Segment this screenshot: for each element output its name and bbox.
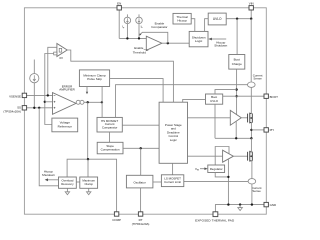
svg-text:Comparator: Comparator (151, 25, 167, 29)
pin exposed thermal pad (213, 212, 218, 217)
shutdown logic block (189, 31, 208, 46)
regulator block (208, 165, 225, 173)
overload recovery block (59, 177, 77, 188)
svg-text:Comparator: Comparator (102, 126, 118, 130)
junction dot VIN-UVLO rail (250, 18, 252, 20)
wire boot uvlo top monitor (215, 90, 237, 94)
op-amp HS gate driver (230, 110, 241, 125)
LS MOSFET current limit block (161, 175, 183, 187)
svg-text:EN: EN (117, 1, 121, 5)
junction dot SS discharge branch (38, 107, 40, 109)
pin VIN (249, 6, 253, 10)
boot UVLO block (206, 94, 223, 104)
pin GND (264, 202, 268, 206)
ground under overload recovery (66, 188, 68, 192)
svg-text:Enable: Enable (134, 46, 144, 50)
SS charge current supply stub (33, 60, 35, 74)
svg-text:PH: PH (270, 128, 274, 132)
junction dot boot rail (235, 95, 237, 97)
svg-text:Regulator: Regulator (210, 167, 223, 171)
maximum clamp block (80, 177, 98, 188)
op-amp LS gate driver (223, 150, 234, 162)
pin BOOT (264, 94, 268, 98)
junction dot Ih-bus (138, 37, 140, 39)
wire COMP node down (87, 102, 89, 159)
ground symbol on GND rail (239, 205, 241, 208)
svg-text:BOOT: BOOT (270, 95, 279, 99)
wire buffer input A from VSENSE (48, 47, 57, 95)
svg-text:Compensation: Compensation (101, 147, 120, 151)
op-amp enable comparator (146, 36, 162, 50)
junction dot PH rail to LS drain (250, 137, 252, 139)
junction dot PH node (250, 129, 252, 131)
junction dot comparator output (167, 42, 169, 44)
svg-text:Pulse Skip: Pulse Skip (87, 77, 102, 81)
wire oscillator to slope line (140, 148, 142, 175)
UVLO block (208, 13, 226, 25)
wire VIN rail down to current sense (250, 19, 252, 82)
wire HS source to PH node (250, 123, 253, 139)
wire LS driver output to gate (233, 155, 247, 157)
boot charge block (229, 55, 245, 70)
error amp gm output symbol (76, 100, 80, 104)
enable threshold arrow to comparator input (144, 49, 148, 52)
svg-text:Logic: Logic (195, 39, 203, 43)
wire VIN pin down to rail junction (250, 10, 252, 19)
wire HS driver output to gate (241, 117, 247, 119)
wire buffer 0V input rail (45, 54, 54, 125)
wire Vref node to error amp (45, 101, 53, 103)
wire SS pin to error amp (27, 107, 53, 109)
wire hysteresis feedback (140, 32, 168, 43)
junction dot COMP 4way (87, 158, 89, 160)
svg-text:Sense: Sense (252, 189, 261, 193)
current source SS charge (30, 74, 39, 83)
0V source box on buffer input (54, 52, 57, 55)
junction dot LS driver return (227, 176, 229, 178)
pin RT (138, 212, 142, 216)
pin COMP (114, 212, 118, 216)
junction dot min clamp tap (101, 101, 103, 103)
svg-text:0V: 0V (59, 56, 63, 60)
regulator supply loop top (215, 147, 229, 166)
svg-text:Clamp: Clamp (84, 182, 93, 186)
svg-text:Hiccup: Hiccup (177, 18, 187, 22)
wire min clamp output to power stage (110, 79, 164, 103)
wire overload recovery to maximum clamp (76, 181, 80, 183)
wire LS driver return (227, 159, 229, 205)
svg-text:Recovery: Recovery (61, 182, 74, 186)
slope compensation block (97, 142, 123, 154)
svg-text:Threshold: Threshold (133, 51, 146, 55)
wire thermal hiccup to shutdown logic (191, 19, 195, 32)
svg-text:AMPLIFIER: AMPLIFIER (59, 88, 75, 92)
svg-text:Current Limit: Current Limit (164, 180, 181, 184)
error amp input marks (54, 95, 56, 108)
wire current sense bottom to GND rail (251, 184, 253, 205)
svg-text:Logic: Logic (170, 138, 178, 142)
wire EN pin down (118, 10, 120, 38)
svg-text:(TPS54x20A): (TPS54x20A) (3, 109, 21, 113)
IC boundary (24, 8, 266, 214)
oscillator block (126, 175, 152, 188)
svg-text:Shutdown: Shutdown (214, 44, 227, 48)
wire oscillator to LS current limit (153, 181, 162, 183)
svg-text:GND: GND (270, 203, 277, 207)
current sense bottom (248, 179, 256, 184)
hiccup shutdown arrow into shutdown logic (211, 38, 226, 40)
svg-text:Oscillator: Oscillator (133, 181, 145, 185)
svg-text:COMP: COMP (112, 218, 121, 222)
junction dot driver return on PH rail (235, 137, 237, 139)
wire power stage to LS driver (188, 155, 223, 157)
wire error amp output (84, 101, 102, 103)
junction dot oscillator tap (140, 147, 142, 149)
wire boot charge down to HS driver supply (236, 69, 238, 115)
svg-text:Reference: Reference (58, 124, 73, 128)
junction dot LS sense on GND rail (251, 203, 253, 205)
wire buffer output (67, 50, 173, 102)
current source Ih supply stub (138, 14, 140, 17)
wire UVLO to VIN rail (226, 18, 251, 20)
pin SS (22, 106, 26, 110)
wire BOOT pin line (223, 95, 264, 97)
svg-text:EXPOSED THERMAL PAD: EXPOSED THERMAL PAD (195, 218, 235, 222)
ground under maximum clamp (88, 188, 90, 192)
wire COMP pin run (67, 159, 117, 212)
wire HS comparator to power stage (122, 124, 159, 126)
wire slope comp to power stage (123, 147, 159, 149)
junction dot boot charge tap (236, 18, 238, 20)
pin VSENSE (22, 93, 26, 97)
svg-text:(TPS54x20A): (TPS54x20A) (132, 222, 150, 226)
svg-text:Shutdown: Shutdown (42, 173, 55, 177)
junction dot COMP branch (87, 101, 89, 103)
wire boot charge from VIN (236, 19, 238, 55)
wire boot uvlo bottom to PH rail (214, 104, 216, 138)
wire Ip to bus (126, 24, 128, 39)
0V buffer amp (57, 44, 67, 57)
junction dot boot uvlo monitor (235, 88, 237, 90)
svg-text:Sense: Sense (253, 77, 262, 81)
wire PH rail (215, 137, 251, 139)
wire HS driver return (235, 121, 237, 138)
wire HS comparator to slope comp (109, 132, 111, 142)
op-amp error amplifier (53, 93, 77, 115)
min clamp down arrow (86, 87, 88, 93)
wire UVLO to shutdown logic (205, 19, 209, 32)
wire SS current source to SS line (33, 83, 35, 108)
wire PH rail down to LS drain (250, 138, 253, 152)
svg-text:VSENSE: VSENSE (9, 94, 21, 98)
hiccup shutdown arrow from overload recovery (47, 179, 58, 181)
wire LS current limit sense line (184, 180, 248, 182)
wire VIN rail to HS drain (251, 87, 252, 113)
HS MOSFET current comparator block (97, 117, 122, 132)
wire power stage to LS current limit (172, 163, 174, 175)
wire regulator ground return (215, 173, 228, 177)
current source Ip (124, 17, 130, 24)
minimum clamp pulse skip block (79, 70, 109, 87)
svg-text:UVLO: UVLO (210, 99, 219, 103)
wire SS discharge down (39, 108, 58, 186)
junction dot VSENSE-buffer (47, 94, 49, 96)
wire min clamp to HS comparator (101, 87, 103, 118)
wire comparator output (162, 42, 189, 44)
power stage and deadtime control logic block (159, 102, 187, 163)
current source Ip supply stub (126, 14, 128, 17)
wire VSENSE pin to error amp (27, 94, 53, 96)
current sense top (248, 82, 256, 87)
transistor HS MOSFET (248, 113, 253, 124)
wire boot uvlo to power stage (183, 99, 206, 102)
pin EN (117, 6, 121, 10)
wire internal GND rail (215, 205, 264, 212)
junction dot LS return on GND rail (227, 203, 229, 205)
wire oscillator to RT pin (140, 188, 142, 212)
voltage reference block (52, 118, 78, 132)
wire PH pin line (251, 129, 264, 131)
wire power stage to HS driver (188, 117, 231, 119)
junction dot Vref node (44, 101, 46, 103)
junction dot Ip-bus (126, 37, 128, 39)
reference element inside buffer (59, 48, 62, 52)
wire LS source to current sense (251, 161, 253, 179)
wire regulator input arrow (200, 168, 205, 170)
svg-text:UVLO: UVLO (213, 17, 222, 21)
wire Ih to bus (138, 24, 140, 39)
current source Ih (136, 17, 143, 24)
svg-text:VIN: VIN (249, 1, 254, 5)
wire Ip/Ih bus to comparator + input (119, 37, 146, 39)
junction dot ground symbol tap (239, 203, 241, 205)
transistor LS MOSFET (248, 151, 253, 162)
pin PH (264, 128, 268, 132)
thermal shutdown block (173, 13, 191, 24)
wire max clamp drop (87, 159, 89, 177)
wire current sense signal to HS comparator (116, 85, 248, 118)
junction dot SS current source (33, 107, 35, 109)
svg-text:Charge: Charge (232, 62, 242, 66)
